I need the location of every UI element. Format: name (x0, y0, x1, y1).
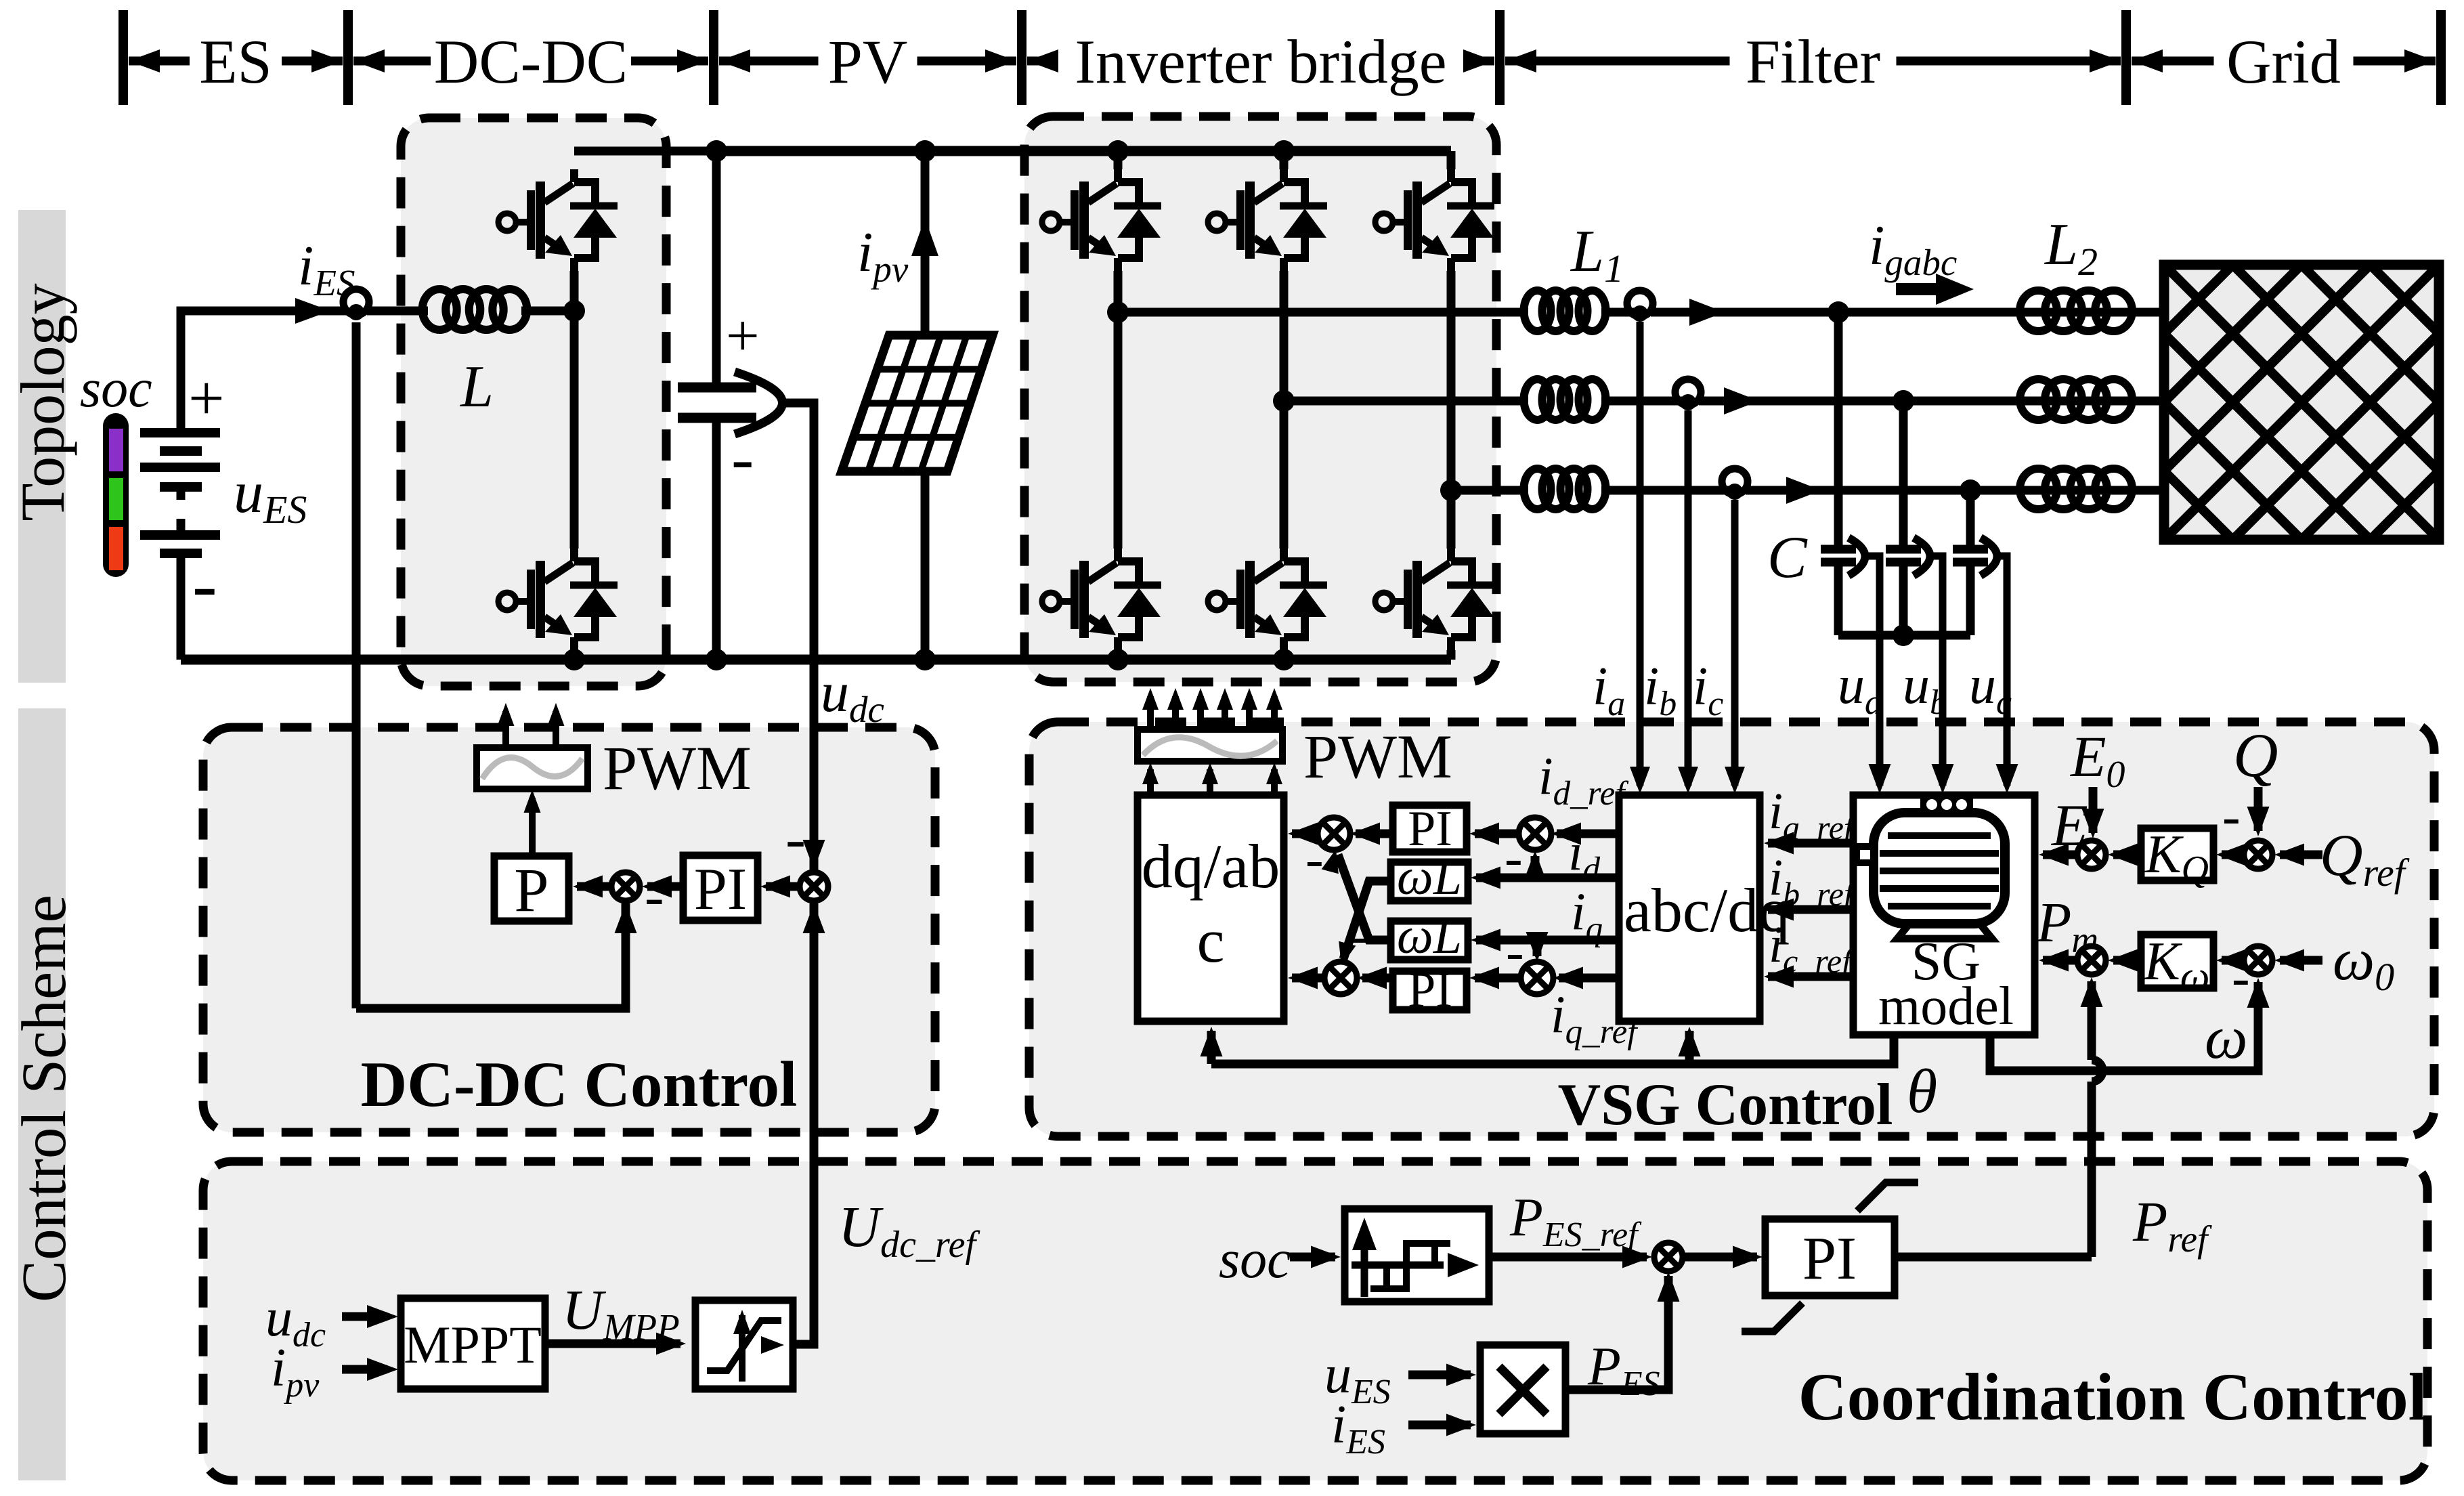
svg-text:abc/dq: abc/dq (1624, 876, 1790, 945)
theta wire from SG model to transforms (1211, 1031, 1894, 1064)
IGBT S1 upper (1042, 213, 1060, 231)
block wL upper (1391, 862, 1468, 901)
wire xcirc2 to PI (766, 882, 800, 891)
iq branch down into junction (1533, 940, 1542, 956)
capacitor Cdc curved electrode (735, 372, 783, 434)
Pref wire up to Pm junction with hop (2088, 1082, 2096, 1257)
negative DC bus rail (181, 655, 1451, 665)
svg-text:DC-DC Control: DC-DC Control (361, 1048, 798, 1120)
filter row 2 wire L1 to sensor (1601, 397, 1688, 406)
svg-text:Filter: Filter (1746, 27, 1880, 96)
Q input arrow (2254, 787, 2263, 831)
wire abc/dq to iq_ref junction (1559, 974, 1619, 983)
filter row 1 wire with arrow (1651, 308, 2164, 317)
uc tap wire to SG model (1996, 556, 2007, 786)
svg-text:ωL: ωL (1397, 907, 1462, 964)
node row 1 cap junction (1828, 301, 1849, 323)
svg-text:DC-DC: DC-DC (434, 27, 628, 96)
summing junction w0 (2244, 946, 2272, 975)
inverter leg 3 wires (1447, 151, 1456, 169)
IGBT S3 upper (1375, 213, 1393, 231)
soc staircase block (1345, 1209, 1489, 1302)
dq/abc to PWM arrows (1147, 769, 1154, 795)
block abc/dq (1619, 795, 1760, 1021)
svg-text:+: + (726, 303, 760, 369)
grid connection wire (2126, 486, 2164, 495)
svg-text:-: - (645, 863, 664, 928)
block rate limiter (695, 1300, 793, 1389)
filter cap common bus (1838, 631, 1970, 640)
sidebar Control Scheme (18, 708, 66, 1480)
block Kw (2141, 935, 2213, 988)
wire junction to PI (1682, 1253, 1757, 1262)
svg-text:c: c (1197, 906, 1225, 975)
ub tap wire to SG model (1929, 556, 1943, 786)
wire Pm junction to SG (2043, 956, 2078, 965)
filter capacitor Cb (1899, 401, 1908, 549)
sidebar Topology (18, 210, 66, 683)
udc arrow into junction (803, 840, 825, 870)
ib measurement wire (1685, 410, 1692, 786)
block PI q-axis (1393, 971, 1467, 1010)
filter row 1 wire L1 to sensor (1601, 308, 1640, 317)
IGBT S2 upper (1208, 213, 1226, 231)
header arrow+label Filter (1505, 57, 1730, 66)
PV panel (842, 335, 993, 471)
grid connection wire (2126, 308, 2164, 317)
svg-text:ω: ω (2205, 1004, 2248, 1071)
header arrow+label ES (129, 57, 190, 66)
soc input arrow (1290, 1253, 1335, 1262)
node row 3 cap junction (1960, 479, 1981, 501)
Udc_ref wire up into junction (810, 903, 819, 1344)
wire PI-d to junction (1356, 830, 1393, 838)
svg-text:Grid: Grid (2226, 27, 2341, 96)
inverter phase node 1 (1107, 301, 1129, 323)
uES input arrow (1408, 1371, 1471, 1380)
IGBT Q2 lower (498, 593, 516, 610)
wire sensor to inductor L (367, 307, 428, 316)
wL upper output diagonal to q junction (1343, 881, 1391, 959)
svg-text:Control Scheme: Control Scheme (9, 895, 79, 1302)
PWM gate arrows up (VSG) (1147, 696, 1154, 729)
block PI d-axis (1393, 805, 1467, 852)
wire L to leg junction (521, 307, 574, 316)
svg-text:PI: PI (1408, 962, 1452, 1018)
IGBT S6 lower (1375, 593, 1393, 610)
wire w junction to Kw (2222, 956, 2245, 965)
battery ES plates (140, 428, 220, 437)
IGBT Q1 upper (498, 213, 516, 231)
svg-text:VSG Control: VSG Control (1558, 1072, 1893, 1138)
filter capacitor Ca (1834, 312, 1843, 549)
block dq/abc (1138, 795, 1284, 1021)
Pref output wire (1895, 1253, 2092, 1262)
wire MPPT to limiter (545, 1340, 680, 1348)
iES sense wire down to DC-DC control (352, 322, 361, 1008)
svg-text:Topology: Topology (8, 283, 77, 521)
udc input arrow to MPPT (342, 1312, 387, 1321)
filter capacitor Cc (1966, 490, 1975, 549)
DC-DC leg upper wire (570, 271, 579, 311)
block wL lower (1391, 921, 1468, 960)
ia_ref wire SG to abc/dq (1768, 839, 1853, 848)
node bus-PV bottom (914, 649, 936, 670)
svg-text:-: - (1305, 830, 1324, 889)
svg-text:-: - (1505, 828, 1523, 888)
summing junction PES (1654, 1243, 1683, 1271)
inductor L (423, 289, 457, 330)
node DC-DC emitter bottom (563, 649, 585, 670)
omega feedback wire (1990, 982, 2258, 1071)
svg-text:L: L (459, 354, 494, 420)
summing junction q-axis (1324, 962, 1357, 994)
summing junction id_ref (1519, 817, 1551, 850)
capacitor Cdc bottom wire (712, 418, 721, 660)
wire xcirc to dq/abc (d axis) (1292, 830, 1320, 838)
wire ES top with iES arrow (181, 307, 347, 316)
wire q junction to dq/abc (1292, 974, 1327, 983)
summing junction Q (2244, 840, 2272, 869)
svg-text:-: - (785, 805, 806, 872)
VSG Control dashed box (1029, 722, 2434, 1136)
summing junction d-axis (1318, 817, 1350, 850)
PWM gate arrows up (DC-DC) (502, 711, 509, 748)
inverter leg 1 wires (1114, 151, 1123, 169)
node bus-cap bottom (706, 649, 727, 670)
wire staircase to junction (1489, 1253, 1647, 1262)
node cap bus (1893, 624, 1914, 646)
svg-text:PI: PI (1802, 1225, 1857, 1292)
w0 input (2280, 956, 2322, 965)
wire PI to xcirc (647, 882, 683, 891)
ic measurement wire (1731, 500, 1739, 786)
filter L2 inductor row 1 (2020, 291, 2057, 331)
inverter phase node 3 (1440, 479, 1462, 501)
wire junction to PI-q (1475, 974, 1523, 983)
filter L2 inductor row 2 (2020, 379, 2057, 420)
iES input arrow (1408, 1421, 1471, 1430)
summing junction iq_ref (1521, 962, 1553, 994)
block SG model (1853, 795, 2035, 1035)
IGBT S4 lower (1042, 593, 1060, 610)
filter row 3 wire with arrow (1746, 486, 2164, 495)
inverter leg 2 wires (1280, 151, 1289, 169)
svg-text:dq/ab: dq/ab (1142, 832, 1280, 901)
inverter bridge dashed box (1024, 116, 1496, 682)
iq wire from abc/dq (1476, 936, 1619, 945)
node bus-cap top (706, 140, 727, 162)
summing junction E (2077, 840, 2106, 869)
DC-DC leg bottom stub (570, 650, 579, 660)
positive DC bus rail (716, 146, 1451, 156)
svg-text:-: - (731, 421, 754, 496)
Qref input (2280, 851, 2322, 859)
PWM block (DC-DC control) (477, 748, 588, 789)
id branch up into junction (1531, 856, 1540, 878)
svg-text:C: C (1767, 525, 1808, 591)
svg-text:Coordination Control: Coordination Control (1798, 1359, 2427, 1434)
DC-DC converter dashed box (401, 118, 666, 686)
udc tap wire (785, 403, 814, 873)
section divider ticks (118, 10, 128, 105)
header arrow+label PV (719, 57, 819, 66)
summing junction (voltage loop) (800, 872, 828, 901)
inverter phase node 2 (1273, 390, 1295, 412)
igabc block arrow (1896, 283, 1938, 295)
summing junction (current loop) (611, 872, 640, 901)
svg-text:PWM: PWM (1303, 722, 1452, 791)
inverter top rail nodes (1107, 140, 1129, 162)
DC-DC Control dashed box (203, 727, 935, 1132)
svg-text:-: - (2222, 787, 2241, 847)
wL lower output diagonal to d junction (1338, 855, 1391, 940)
phase B output wire (1284, 397, 1528, 406)
id wire from abc/dq (1476, 874, 1619, 882)
header arrow+label DC-DC (353, 57, 431, 66)
filter L1 inductor row 2 (1524, 379, 1551, 420)
wire P to PWM (529, 798, 536, 856)
phase A output wire (1118, 308, 1528, 317)
header arrow+label Inverter bridge (1027, 57, 1052, 66)
current sensor ib (1675, 379, 1701, 410)
DC-DC leg lower wire (570, 311, 579, 549)
multiplier block (1480, 1345, 1565, 1434)
wire xcirc to P (577, 882, 612, 891)
svg-text:soc: soc (80, 359, 152, 419)
inverter bottom rail nodes (1107, 649, 1129, 670)
svg-text:model: model (1878, 977, 2014, 1036)
wire E junction to SG (2043, 851, 2078, 859)
wire abc/dq to id_ref junction (1557, 830, 1619, 838)
wire PI-q to q junction (1362, 974, 1393, 983)
svg-text:P: P (514, 855, 548, 924)
svg-text:PI: PI (694, 857, 747, 922)
svg-text:MPPT: MPPT (404, 1315, 542, 1374)
svg-text:-: - (192, 543, 217, 626)
ib_ref wire SG to abc/dq (1768, 905, 1853, 914)
PES wire to junction (1565, 1276, 1668, 1390)
current sensor iES (343, 289, 369, 320)
battery ES positive wire (181, 311, 297, 433)
block PI (coordination) with limits (1765, 1219, 1895, 1296)
ipv input arrow to MPPT (342, 1365, 387, 1374)
iES feedback wire to current junction (356, 903, 626, 1008)
svg-text:Inverter bridge: Inverter bridge (1075, 27, 1446, 96)
summing junction Pm (2077, 946, 2106, 975)
SG motor icon (1874, 813, 2005, 924)
wire Kw to Pm junction (2113, 956, 2141, 965)
capacitor Cdc top wire (712, 151, 721, 387)
wire limiter to Udc_ref riser (793, 1341, 814, 1344)
filter row 2 wire with arrow (1699, 397, 2164, 406)
Coordination Control dashed box (203, 1161, 2427, 1480)
PV wire bottom (921, 471, 930, 660)
svg-text:soc: soc (1219, 1230, 1291, 1289)
filter row 3 wire L1 to sensor (1601, 486, 1735, 495)
block MPPT (401, 1298, 545, 1389)
svg-text:ES: ES (199, 27, 272, 96)
header arrow+label Grid (2132, 57, 2214, 66)
svg-text:Q: Q (2233, 721, 2278, 790)
svg-text:+: + (188, 362, 225, 434)
svg-text:PV: PV (828, 27, 908, 96)
filter L1 inductor row 3 (1524, 469, 1551, 509)
wire Q junction to KQ (2222, 851, 2245, 859)
PV wire top with ipv arrow (921, 151, 930, 335)
filter L2 inductor row 3 (2020, 469, 2057, 509)
capacitor Cdc plates (678, 383, 756, 393)
svg-text:-: - (2232, 948, 2250, 1008)
svg-text:PWM: PWM (603, 733, 752, 803)
PWM block (VSG) (1138, 729, 1282, 761)
battery bottom wire (177, 553, 186, 660)
grid connection wire (2126, 397, 2164, 406)
current sensor ic (1722, 469, 1748, 500)
IGBT S5 lower (1208, 593, 1226, 610)
wire id_ref junction to PI (1475, 830, 1521, 838)
current sensor ia (1627, 291, 1653, 322)
svg-text:-: - (1351, 906, 1369, 966)
svg-text:ωL: ωL (1397, 849, 1462, 905)
node row 2 cap junction (1893, 390, 1914, 412)
ia measurement wire (1637, 322, 1644, 786)
ic_ref wire SG to abc/dq (1768, 973, 1853, 981)
node bus-PV top (914, 140, 936, 162)
phase C output wire (1451, 486, 1528, 495)
soc indicator bar (103, 413, 129, 577)
node junction L / leg (563, 300, 585, 322)
block P (494, 856, 569, 921)
filter L1 inductor row 1 (1524, 291, 1551, 331)
block KQ (2141, 828, 2213, 880)
svg-text:θ: θ (1907, 1056, 1937, 1126)
E0 input arrow (2089, 787, 2098, 833)
wire KQ to E junction (2113, 851, 2141, 859)
block PI (DC-DC) (683, 855, 758, 920)
ua tap wire to SG model (1864, 556, 1880, 786)
